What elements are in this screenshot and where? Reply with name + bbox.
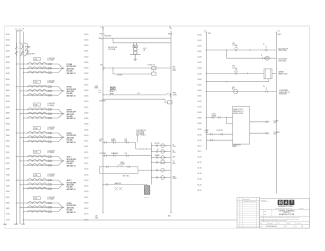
wire rung start-stop 2 bbox=[102, 153, 151, 157]
svg-text:PNL: PNL bbox=[173, 67, 176, 69]
svg-text:3035: 3035 bbox=[6, 62, 10, 64]
svg-text:HIGH LEVEL: HIGH LEVEL bbox=[279, 94, 287, 96]
svg-text:SC: SC bbox=[285, 226, 287, 228]
node label control xfmr switch bbox=[94, 86, 98, 90]
svg-text:5015: 5015 bbox=[197, 40, 201, 42]
circuit-breaker CB1 group header bbox=[33, 58, 55, 62]
svg-text:HAND SW: HAND SW bbox=[115, 182, 122, 185]
svg-text:MOTOR 25HP: MOTOR 25HP bbox=[67, 205, 76, 207]
svg-text:LIGHT (RED): LIGHT (RED) bbox=[278, 60, 287, 62]
svg-text:4080: 4080 bbox=[84, 112, 88, 114]
node label to alarm bbox=[274, 119, 279, 124]
svg-text:AUTO: AUTO bbox=[121, 161, 125, 164]
bus L1N control left bbox=[102, 28, 104, 213]
node cable junction CB2 bbox=[59, 87, 65, 96]
switch pressure PS1 bbox=[234, 89, 238, 93]
svg-text:MODULE FAIL: MODULE FAIL bbox=[278, 58, 287, 61]
node label TR2 bbox=[232, 66, 237, 70]
svg-text:MOTOR 25HP: MOTOR 25HP bbox=[67, 112, 76, 114]
svg-text:3115: 3115 bbox=[6, 152, 10, 154]
svg-text:CB5: CB5 bbox=[34, 152, 37, 154]
svg-text:5150: 5150 bbox=[197, 190, 201, 192]
wire bottom boundary line bbox=[22, 219, 237, 221]
svg-text:CB1: CB1 bbox=[34, 59, 37, 61]
svg-text:SET 5 SEC: SET 5 SEC bbox=[123, 176, 130, 178]
node label fuse FU2 bbox=[143, 48, 146, 52]
svg-text:TO PNL LTG: TO PNL LTG bbox=[147, 64, 155, 66]
contact condensate end bbox=[266, 87, 268, 92]
node bus continuation bottom middle bbox=[95, 212, 172, 219]
node load description CB5 bbox=[67, 156, 76, 168]
svg-text:MOTOR 25HP: MOTOR 25HP bbox=[67, 135, 76, 137]
svg-text:3100: 3100 bbox=[6, 135, 10, 137]
node label X1 bbox=[204, 30, 211, 35]
wire module input 2 bbox=[206, 133, 232, 135]
svg-text:5085: 5085 bbox=[197, 118, 201, 120]
svg-text:4175: 4175 bbox=[84, 219, 88, 221]
svg-text:3060: 3060 bbox=[6, 90, 10, 92]
svg-text:4145: 4145 bbox=[84, 186, 88, 188]
svg-text:CB2: CB2 bbox=[34, 82, 37, 84]
node load description CB4 bbox=[67, 133, 76, 144]
svg-text:XFMR: XFMR bbox=[94, 88, 98, 90]
svg-text:CONDENSATE: CONDENSATE bbox=[279, 89, 288, 92]
svg-text:5100: 5100 bbox=[197, 134, 201, 136]
svg-text:MOTOR 25HP: MOTOR 25HP bbox=[67, 89, 76, 91]
wire rung TR time delay bbox=[206, 44, 277, 51]
node logo BAT bbox=[278, 200, 295, 205]
svg-text:3090: 3090 bbox=[6, 124, 10, 126]
wire rung CB2 phase 1 bbox=[16, 85, 59, 87]
svg-text:4085: 4085 bbox=[84, 118, 88, 120]
lamp pilot module fail bbox=[263, 56, 270, 60]
svg-text:4060: 4060 bbox=[84, 90, 88, 92]
svg-text:3145: 3145 bbox=[6, 186, 10, 188]
wire rung CB3 phase 2 bbox=[19, 112, 58, 114]
node cable junction CB6 bbox=[59, 180, 65, 189]
relay coil M branch bbox=[155, 143, 160, 145]
svg-text:5070: 5070 bbox=[197, 101, 201, 103]
relay coil reset box bbox=[167, 101, 172, 104]
svg-text:MODULE LC-1: MODULE LC-1 bbox=[233, 111, 244, 113]
svg-text:LIGHT: LIGHT bbox=[173, 178, 177, 180]
node logo company name bbox=[276, 206, 304, 210]
circuit-breaker CB4 group header bbox=[33, 127, 55, 131]
node label N top bbox=[168, 27, 172, 36]
bus X2 right column bbox=[275, 32, 277, 194]
svg-text:CONV 1: CONV 1 bbox=[67, 203, 73, 205]
svg-text:L-300 MCM: L-300 MCM bbox=[47, 103, 55, 105]
svg-text:4050: 4050 bbox=[84, 79, 88, 81]
svg-text:TR-1: TR-1 bbox=[232, 43, 235, 45]
bus X1 right column bbox=[205, 32, 207, 151]
node title block bbox=[260, 198, 310, 228]
node label test light bbox=[173, 93, 177, 97]
svg-text:FU-2: FU-2 bbox=[143, 48, 146, 50]
wire rung hand switch bbox=[102, 183, 147, 185]
node label condensate note bbox=[279, 89, 289, 95]
wire branch 4-way switch bbox=[112, 67, 151, 74]
node label TR time delay bbox=[232, 43, 264, 47]
circuit-breaker CB3 group header bbox=[33, 103, 55, 107]
node load description CB7 bbox=[67, 203, 76, 214]
svg-text:5115: 5115 bbox=[197, 151, 201, 153]
node revision table bbox=[237, 197, 260, 227]
svg-text:4075: 4075 bbox=[84, 107, 88, 109]
svg-text:SEE DWG 12: SEE DWG 12 bbox=[67, 189, 76, 191]
switch selector test cluster bbox=[109, 87, 117, 95]
svg-text:4125: 4125 bbox=[84, 163, 88, 165]
node load description CB2 bbox=[67, 86, 76, 98]
svg-text:CONT: CONT bbox=[94, 86, 98, 88]
motor M heater box bbox=[143, 185, 159, 195]
svg-text:5025: 5025 bbox=[197, 51, 201, 53]
node cable junction CB7 bbox=[59, 203, 65, 212]
svg-text:3125: 3125 bbox=[6, 163, 10, 165]
svg-text:NEUT: NEUT bbox=[278, 34, 282, 36]
svg-text:3130: 3130 bbox=[6, 169, 10, 171]
relay coil PNL LTG contactor bbox=[152, 67, 156, 76]
svg-text:AGIT 2: AGIT 2 bbox=[67, 179, 72, 182]
svg-text:4160: 4160 bbox=[84, 202, 88, 204]
svg-text:CABINET: CABINET bbox=[278, 71, 284, 74]
svg-text:COIL: COIL bbox=[173, 152, 176, 154]
node labels stop start aux 1 bbox=[99, 138, 127, 143]
circuit-breaker CB5 group header bbox=[33, 150, 55, 154]
wire rung CB7 phase 1 bbox=[16, 202, 59, 204]
svg-text:TEST: TEST bbox=[173, 93, 177, 95]
svg-text:COIL: COIL bbox=[173, 146, 176, 148]
svg-text:3065: 3065 bbox=[6, 96, 10, 98]
svg-text:CB7: CB7 bbox=[34, 198, 37, 200]
svg-text:REF: REF bbox=[264, 210, 267, 212]
svg-text:4115: 4115 bbox=[84, 152, 88, 154]
svg-text:FERRIER SYSTEMS: FERRIER SYSTEMS bbox=[278, 206, 292, 208]
svg-text:480-120V 1PH: 480-120V 1PH bbox=[108, 47, 117, 49]
wire rung CB1 phase 3 bbox=[23, 71, 59, 73]
svg-text:SEE DWG 12: SEE DWG 12 bbox=[67, 73, 76, 75]
svg-text:4105: 4105 bbox=[84, 141, 88, 143]
svg-text:3025: 3025 bbox=[6, 51, 10, 53]
svg-text:FU-1: FU-1 bbox=[100, 65, 103, 67]
svg-text:FD FAN: FD FAN bbox=[67, 63, 72, 66]
svg-text:3080: 3080 bbox=[6, 112, 10, 114]
wire module output pump bbox=[250, 132, 270, 134]
switch disconnect on feed bbox=[98, 37, 103, 40]
wire rung selector to R1 bbox=[102, 94, 166, 95]
wire rung feed top bbox=[102, 38, 171, 39]
svg-text:4035: 4035 bbox=[84, 62, 88, 64]
svg-text:STOP PB3: STOP PB3 bbox=[99, 153, 106, 155]
svg-text:SEE DWG 12: SEE DWG 12 bbox=[67, 95, 76, 97]
contact R1 test bbox=[167, 93, 171, 97]
svg-text:SYSTEMS INC: SYSTEMS INC bbox=[261, 201, 269, 203]
wire vertical coil bus bbox=[151, 142, 153, 184]
sheet frame border bbox=[5, 26, 310, 228]
node cable junction CB4 bbox=[59, 133, 65, 142]
node label below module bbox=[232, 144, 240, 148]
wire rung secondary 120V bbox=[103, 67, 171, 70]
svg-text:3165: 3165 bbox=[6, 208, 10, 210]
svg-text:R: R bbox=[261, 55, 262, 57]
wire rung start-stop 1 bbox=[102, 140, 152, 150]
svg-text:T.D.O.: T.D.O. bbox=[232, 67, 237, 69]
svg-text:4170: 4170 bbox=[84, 214, 88, 216]
wire rung CB4 phase 2 bbox=[19, 136, 58, 138]
bus L1 phase A bbox=[15, 32, 17, 223]
svg-text:3085: 3085 bbox=[6, 118, 10, 120]
node label hand switch bbox=[115, 182, 122, 185]
svg-text:4110: 4110 bbox=[84, 146, 88, 148]
wire rung CB7 phase 2 bbox=[19, 206, 58, 208]
svg-text:TIMER: TIMER bbox=[121, 164, 125, 166]
wire rung CB7 phase 3 bbox=[23, 210, 59, 212]
relay coil TD branch bbox=[151, 161, 171, 164]
svg-text:MOTOR 25HP: MOTOR 25HP bbox=[67, 159, 76, 161]
svg-text:SEE DWG 12: SEE DWG 12 bbox=[67, 165, 76, 167]
svg-text:5095: 5095 bbox=[197, 129, 201, 131]
wire rung 49 reset bbox=[102, 99, 167, 103]
circuit-breaker CB7 group header bbox=[33, 197, 55, 201]
svg-text:480V 3PH: 480V 3PH bbox=[16, 30, 22, 32]
svg-text:5060: 5060 bbox=[197, 90, 201, 92]
relay coil 49X branch bbox=[155, 154, 159, 157]
svg-text:5035: 5035 bbox=[197, 62, 201, 64]
svg-text:4130: 4130 bbox=[84, 169, 88, 171]
svg-text:3150: 3150 bbox=[6, 191, 10, 193]
svg-text:SEE DWG 12: SEE DWG 12 bbox=[67, 118, 76, 120]
wire rung CB2 phase 2 bbox=[19, 89, 58, 91]
bus N control right bbox=[170, 31, 172, 212]
svg-text:5140: 5140 bbox=[197, 179, 201, 181]
node label to pump bbox=[274, 132, 280, 136]
svg-text:4010: 4010 bbox=[84, 34, 88, 36]
svg-text:CB3: CB3 bbox=[34, 104, 37, 106]
svg-text:4150: 4150 bbox=[84, 191, 88, 193]
svg-text:L30C: L30C bbox=[21, 224, 26, 226]
svg-text:REVISED PER ECN 104: REVISED PER ECN 104 bbox=[243, 201, 256, 203]
svg-text:4065: 4065 bbox=[84, 96, 88, 98]
wire rung CB3 phase 1 bbox=[16, 108, 59, 110]
svg-text:3055: 3055 bbox=[6, 84, 10, 86]
wire rung heater TR2 bbox=[206, 68, 277, 75]
svg-text:4-W SW: 4-W SW bbox=[117, 75, 123, 77]
svg-text:PB1: PB1 bbox=[99, 141, 102, 143]
svg-text:L-300 MCM: L-300 MCM bbox=[47, 58, 55, 60]
wire timer bypass loop bbox=[99, 165, 151, 174]
node label L1N top bbox=[100, 27, 105, 36]
svg-text:COM: COM bbox=[205, 132, 208, 134]
node cable junction CB3 bbox=[59, 109, 65, 118]
svg-text:5090: 5090 bbox=[197, 123, 201, 125]
svg-text:PUMP RUNS ON: PUMP RUNS ON bbox=[279, 92, 289, 94]
svg-text:L-300 MCM: L-300 MCM bbox=[47, 174, 55, 176]
svg-text:N3T 5L8: N3T 5L8 bbox=[299, 208, 304, 210]
node label probes bbox=[212, 114, 217, 118]
svg-text:TC: TC bbox=[263, 44, 265, 46]
svg-text:L30B: L30B bbox=[14, 224, 18, 226]
svg-text:PNL L1: PNL L1 bbox=[100, 34, 105, 36]
svg-text:R-1: R-1 bbox=[138, 93, 140, 95]
node label 49 reset bbox=[99, 101, 106, 103]
svg-text:49: 49 bbox=[173, 150, 175, 152]
svg-text:3045: 3045 bbox=[6, 73, 10, 75]
svg-text:DWG: DWG bbox=[260, 226, 263, 228]
svg-text:5055: 5055 bbox=[197, 84, 201, 86]
svg-text:3170: 3170 bbox=[6, 214, 10, 216]
wire rung module fail bbox=[226, 49, 276, 58]
node load description CB6 bbox=[67, 179, 76, 191]
svg-text:5075: 5075 bbox=[197, 107, 201, 109]
relay coil alarm branch bbox=[151, 168, 171, 172]
svg-text:4025: 4025 bbox=[84, 51, 88, 53]
svg-text:3140: 3140 bbox=[6, 180, 10, 182]
svg-text:D-23-1754-03: D-23-1754-03 bbox=[266, 226, 276, 228]
svg-text:T.D.C.: T.D.C. bbox=[232, 45, 236, 47]
node line-number column left bbox=[6, 34, 10, 221]
node bus continuation labels bottom bbox=[3, 223, 26, 226]
svg-text:4090: 4090 bbox=[84, 124, 88, 126]
svg-text:ALARM: ALARM bbox=[155, 154, 159, 157]
wire rung CB6 phase 3 bbox=[23, 187, 59, 189]
svg-text:4040: 4040 bbox=[84, 68, 88, 70]
svg-text:TD: TD bbox=[173, 161, 175, 163]
svg-text:BULK 6%: BULK 6% bbox=[283, 212, 290, 214]
svg-text:PUMP 1: PUMP 1 bbox=[67, 109, 73, 111]
svg-text:49X: 49X bbox=[125, 153, 127, 155]
node labels stop start aux 2 bbox=[99, 152, 127, 155]
svg-text:3155: 3155 bbox=[6, 197, 10, 199]
wire rung CB1 phase 1 bbox=[16, 63, 59, 65]
svg-text:L1: L1 bbox=[15, 29, 17, 31]
svg-text:L-300 MCM: L-300 MCM bbox=[47, 80, 55, 82]
svg-text:PNL N: PNL N bbox=[168, 34, 172, 36]
svg-text:3020: 3020 bbox=[6, 45, 10, 47]
svg-text:N30: N30 bbox=[168, 215, 171, 217]
node bus tick marks bbox=[98, 90, 101, 92]
svg-text:SH.6: SH.6 bbox=[274, 122, 277, 124]
svg-text:5110: 5110 bbox=[197, 145, 201, 147]
svg-text:SHT: SHT bbox=[295, 226, 298, 228]
svg-text:5080: 5080 bbox=[197, 112, 201, 114]
svg-text:49 RESET: 49 RESET bbox=[99, 101, 106, 103]
svg-text:REVISIONS: REVISIONS bbox=[243, 199, 250, 201]
wire rung CB4 phase 1 bbox=[16, 132, 59, 134]
svg-text:4055: 4055 bbox=[84, 84, 88, 86]
svg-text:TO PUMP: TO PUMP bbox=[274, 132, 280, 134]
svg-text:5020: 5020 bbox=[197, 46, 201, 48]
node label X2 bbox=[276, 30, 282, 35]
svg-text:MODULE IN OP.: MODULE IN OP. bbox=[278, 49, 289, 51]
svg-text:4135: 4135 bbox=[84, 174, 88, 176]
ground symbol transformer secondary bbox=[133, 59, 137, 61]
wire rung CB6 phase 1 bbox=[16, 179, 59, 181]
svg-text:CB4: CB4 bbox=[34, 128, 37, 130]
svg-text:4020: 4020 bbox=[84, 45, 88, 47]
svg-text:SH.4: SH.4 bbox=[95, 217, 98, 219]
svg-text:CB6: CB6 bbox=[34, 175, 37, 177]
svg-text:4140: 4140 bbox=[84, 180, 88, 182]
svg-text:L2: L2 bbox=[19, 29, 21, 31]
wire rung CB5 phase 1 bbox=[16, 155, 59, 157]
svg-text:3160: 3160 bbox=[6, 202, 10, 204]
svg-text:3040: 3040 bbox=[6, 68, 10, 70]
svg-text:3: 3 bbox=[302, 226, 303, 228]
svg-text:MTR HTR: MTR HTR bbox=[144, 197, 150, 199]
svg-text:5130: 5130 bbox=[197, 168, 201, 170]
svg-text:RUN: RUN bbox=[173, 176, 176, 178]
svg-text:LEVEL CONT: LEVEL CONT bbox=[233, 109, 243, 111]
svg-text:ID FAN: ID FAN bbox=[67, 86, 72, 89]
svg-text:PROBE: PROBE bbox=[212, 115, 217, 117]
wire rung CB4 phase 3 bbox=[23, 140, 59, 142]
svg-text:TO ALM: TO ALM bbox=[274, 119, 279, 122]
node labels input 2 bbox=[205, 130, 224, 134]
svg-text:X2: X2 bbox=[278, 30, 280, 32]
svg-text:LSIG TRIP: LSIG TRIP bbox=[28, 54, 35, 56]
op-amp controller module box bbox=[233, 107, 250, 145]
wire rung CB5 phase 2 bbox=[19, 159, 58, 161]
svg-text:120V: 120V bbox=[173, 70, 176, 72]
node line-number column right bbox=[197, 34, 201, 191]
bus L2 phase B bbox=[19, 32, 21, 223]
svg-text:L30A: L30A bbox=[3, 223, 8, 226]
transformer T1 control power bbox=[130, 43, 141, 59]
svg-text:START PB4: START PB4 bbox=[111, 152, 118, 155]
svg-text:SH.6: SH.6 bbox=[274, 134, 277, 136]
circuit-breaker CB2 group header bbox=[33, 80, 55, 84]
svg-text:TR-2: TR-2 bbox=[232, 66, 235, 68]
svg-text:3070: 3070 bbox=[6, 101, 10, 103]
node label heater bbox=[278, 71, 288, 76]
wire rung CB1 phase 2 bbox=[19, 67, 58, 69]
svg-text:5125: 5125 bbox=[197, 162, 201, 164]
wire rung transformer primary bbox=[113, 38, 171, 43]
svg-text:5030: 5030 bbox=[197, 57, 201, 59]
svg-text:3050: 3050 bbox=[6, 79, 10, 81]
node line-number column middle bbox=[84, 34, 88, 221]
node title block top row text bbox=[261, 200, 269, 203]
svg-text:4155: 4155 bbox=[84, 197, 88, 199]
svg-text:AGIT 1: AGIT 1 bbox=[67, 156, 72, 159]
relay coil run light branch bbox=[151, 176, 171, 180]
svg-text:5045: 5045 bbox=[197, 73, 201, 75]
svg-text:MOTOR 25HP: MOTOR 25HP bbox=[67, 182, 76, 184]
node load description CB3 bbox=[67, 109, 76, 120]
svg-text:L30: L30 bbox=[95, 215, 98, 217]
node label auto timer bbox=[121, 161, 125, 166]
svg-text:4070: 4070 bbox=[84, 101, 88, 103]
circuit-breaker CB main 3-pole bbox=[15, 43, 29, 57]
svg-text:4095: 4095 bbox=[84, 129, 88, 131]
svg-text:3110: 3110 bbox=[6, 146, 10, 148]
svg-text:3175: 3175 bbox=[6, 219, 10, 221]
relay coil 49 branch bbox=[157, 149, 159, 151]
svg-text:3075: 3075 bbox=[6, 107, 10, 109]
wire module input 1 bbox=[206, 116, 233, 124]
svg-text:5010: 5010 bbox=[197, 34, 201, 36]
circuit-breaker CB6 group header bbox=[33, 174, 55, 178]
svg-text:4015: 4015 bbox=[84, 39, 88, 41]
node label M contactor note bbox=[136, 129, 146, 137]
bus L3 phase C bbox=[23, 32, 25, 223]
heater H1 box bbox=[264, 69, 272, 79]
svg-text:PUMP 2: PUMP 2 bbox=[67, 133, 73, 135]
svg-text:5065: 5065 bbox=[197, 95, 201, 97]
wire rung heater return bbox=[206, 79, 269, 82]
svg-text:L3: L3 bbox=[22, 29, 24, 31]
svg-text:4045: 4045 bbox=[84, 73, 88, 75]
